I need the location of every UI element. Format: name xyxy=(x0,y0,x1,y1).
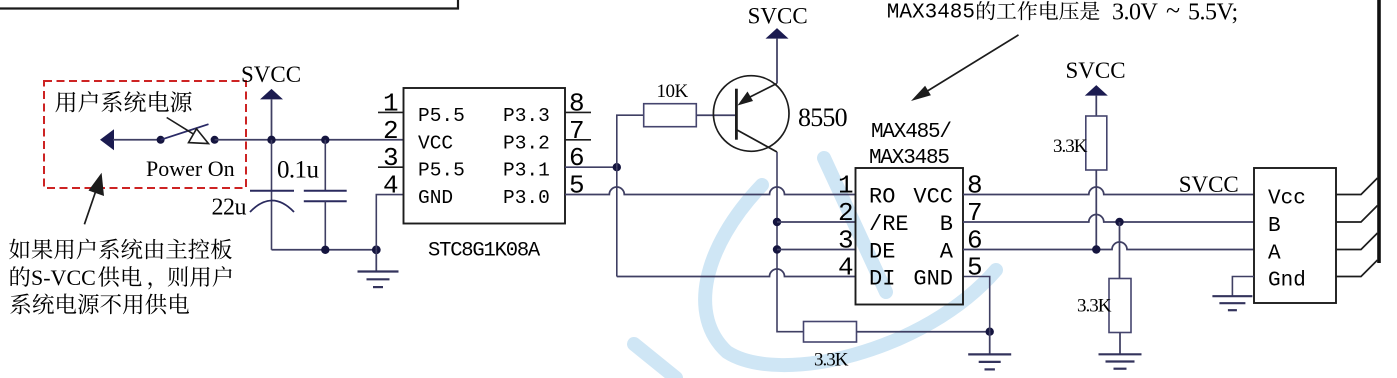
svg-text:5: 5 xyxy=(967,253,983,283)
svg-text:SVCC: SVCC xyxy=(748,4,808,29)
bus entry row 3 xyxy=(1336,233,1378,250)
svg-text:1: 1 xyxy=(383,88,399,118)
svg-text:~: ~ xyxy=(1166,0,1180,25)
svg-text:S-VCC: S-VCC xyxy=(31,265,96,290)
svg-text:4: 4 xyxy=(838,253,854,283)
svg-text:3.3K: 3.3K xyxy=(814,350,849,371)
svg-text:B: B xyxy=(1268,215,1281,238)
svg-text:3.3K: 3.3K xyxy=(1053,136,1088,157)
svg-text:5: 5 xyxy=(569,171,585,201)
IC U1 STC8G1K08A xyxy=(404,88,566,224)
pin 8 stub (P3.3) xyxy=(565,111,591,113)
svg-text:10K: 10K xyxy=(657,81,689,102)
svg-text:A: A xyxy=(940,240,954,265)
svg-text:Gnd: Gnd xyxy=(1268,270,1306,293)
bus (right edge) xyxy=(1377,0,1381,263)
transistor Q1 8550 PNP xyxy=(713,76,789,152)
wire: STC pin 4 GND down to rail xyxy=(376,195,403,250)
junction: STC GND to ground rail xyxy=(372,245,381,254)
power SVCC (above Q1 emitter) xyxy=(748,4,808,84)
svg-text:P3.1: P3.1 xyxy=(503,160,550,182)
node: user power input terminal arrow xyxy=(100,129,114,150)
junction: collector to /RE xyxy=(773,218,781,226)
svg-text:SVCC: SVCC xyxy=(241,62,301,87)
pin 3 stub (P5.5) xyxy=(378,166,404,168)
ground (connector) xyxy=(1212,295,1252,297)
svg-text:2: 2 xyxy=(838,198,854,228)
svg-text:7: 7 xyxy=(967,198,983,228)
pin 1 stub (P5.5) xyxy=(378,111,404,113)
svg-text:VCC: VCC xyxy=(913,185,953,210)
svg-text:SVCC: SVCC xyxy=(1066,58,1126,83)
svg-text:5.5V;: 5.5V; xyxy=(1188,0,1238,26)
wire: R2 to ground node xyxy=(857,331,990,333)
junction: R3 to A wire xyxy=(1092,245,1100,253)
ground (under MAX485) xyxy=(989,332,991,355)
wire: ground rail under caps xyxy=(272,249,377,251)
svg-text:P3.0: P3.0 xyxy=(503,187,550,209)
svg-text:3.0V: 3.0V xyxy=(1112,0,1159,26)
svg-text:P3.2: P3.2 xyxy=(503,132,550,154)
capacitor C1 22u electrolytic xyxy=(250,140,294,250)
svg-text:7: 7 xyxy=(569,116,585,146)
svg-text:0.1u: 0.1u xyxy=(277,157,319,184)
wire: 10K to Q1 base xyxy=(696,114,736,116)
svg-text:MAX485/: MAX485/ xyxy=(871,121,951,144)
wire: input arrow to switch xyxy=(113,139,161,141)
svg-text:6: 6 xyxy=(967,226,983,256)
svg-text:DE: DE xyxy=(869,240,895,265)
svg-text:3.3K: 3.3K xyxy=(1077,296,1112,317)
svg-text:P5.5: P5.5 xyxy=(418,105,465,127)
svg-text:8550: 8550 xyxy=(798,103,848,132)
svg-text:STC8G1K08A: STC8G1K08A xyxy=(428,240,541,263)
power SVCC (left) xyxy=(241,62,301,140)
svg-text:Vcc: Vcc xyxy=(1268,188,1306,211)
wire: STC P3.0 (pin 5) to MAX485 RO (pin 1), hops over verticals xyxy=(565,187,856,195)
wire: P3.1 node down then right to MAX485 DI xyxy=(616,167,618,276)
junction: rail at 0.1u cap xyxy=(321,136,329,144)
switch S1 Power On xyxy=(157,118,219,144)
svg-text:6: 6 xyxy=(569,143,585,173)
resistor R3 3.3K (A line pullup) xyxy=(1086,116,1107,170)
wire: MAX485 A (pin 6) to connector A xyxy=(963,242,1254,249)
ground (left, under STC GND) xyxy=(375,250,377,272)
svg-text:DI: DI xyxy=(869,267,895,292)
svg-text:/RE: /RE xyxy=(869,212,909,237)
pin 6 stub (P3.1) xyxy=(565,166,617,168)
bus entry row 4 xyxy=(1336,260,1378,277)
svg-text:MAX3485: MAX3485 xyxy=(887,2,975,25)
wire: MAX485 B (pin 7) to connector B xyxy=(963,215,1254,222)
junction: rail at 22u cap xyxy=(267,136,275,144)
wire: P3.1 node up to 10K resistor xyxy=(617,115,644,167)
pin 7 stub (P3.2) xyxy=(565,139,591,141)
svg-text:RO: RO xyxy=(869,185,895,210)
svg-text:MAX3485: MAX3485 xyxy=(869,147,949,170)
svg-text:SVCC: SVCC xyxy=(1179,172,1239,197)
power SVCC (right pullup) xyxy=(1066,58,1126,116)
resistor R2 3.3K (collector pulldown) xyxy=(804,322,857,343)
svg-text:B: B xyxy=(940,212,953,237)
svg-text:P5.5: P5.5 xyxy=(418,160,465,182)
wire: R4 to ground xyxy=(1119,333,1121,355)
IC U2 MAX485/MAX3485 xyxy=(856,168,964,305)
junction: P3.1 node (to 10K and DI) xyxy=(613,163,621,171)
junction: collector to DE xyxy=(773,245,781,253)
junction: MAX485 GND / R2 / ground xyxy=(986,328,994,336)
svg-text:22u: 22u xyxy=(212,195,247,221)
junction: 0.1u to ground rail xyxy=(321,246,329,254)
resistor R4 3.3K (B line pulldown) xyxy=(1109,279,1131,333)
wire: collector node to DE pin 3 xyxy=(777,249,856,251)
junction: B wire to R4 pulldown xyxy=(1115,218,1123,226)
resistor R1 10K xyxy=(644,104,697,127)
wire: MAX485 pin5 GND down xyxy=(963,277,990,332)
svg-text:GND: GND xyxy=(418,187,453,209)
wire: R3 down to A wire xyxy=(1095,170,1097,250)
wire: switch to VCC rail into STC pin 2 xyxy=(215,139,404,141)
svg-text:2: 2 xyxy=(383,116,399,146)
wire: collector node to /RE pin 2 xyxy=(777,221,856,223)
bus entry row 1 xyxy=(1336,178,1378,195)
svg-text:8: 8 xyxy=(967,171,983,201)
svg-text:1: 1 xyxy=(838,171,854,201)
svg-text:3: 3 xyxy=(383,143,399,173)
wire: Q1 collector vertical down to 3.3K pulldown xyxy=(777,152,804,332)
svg-text:3: 3 xyxy=(838,226,854,256)
wire: B wire down to R4 xyxy=(1119,222,1121,279)
svg-text:4: 4 xyxy=(383,171,399,201)
wire: MAX485 VCC (pin 8) to connector Vcc, hops at 3.3K pullup xyxy=(963,187,1254,195)
svg-text:A: A xyxy=(1268,243,1281,266)
connector J1 xyxy=(1254,168,1336,303)
svg-text:8: 8 xyxy=(569,88,585,118)
annotation arrow to MAX485 xyxy=(925,35,1019,93)
annotation box: 用户系统电源 dashed outline xyxy=(44,81,246,188)
capacitor C2 0.1u xyxy=(304,140,347,250)
label 用户系统电源 xyxy=(55,91,191,112)
svg-text:VCC: VCC xyxy=(418,132,453,154)
ground (under R4) xyxy=(1099,353,1142,355)
annotation: left note text xyxy=(9,239,232,260)
svg-text:Power On: Power On xyxy=(146,156,235,181)
annotation arrow to power box xyxy=(84,189,96,224)
bus entry row 2 xyxy=(1336,206,1378,223)
svg-text:GND: GND xyxy=(913,267,953,292)
svg-text:P3.3: P3.3 xyxy=(503,105,550,127)
wire: connector Gnd to ground xyxy=(1232,277,1254,297)
